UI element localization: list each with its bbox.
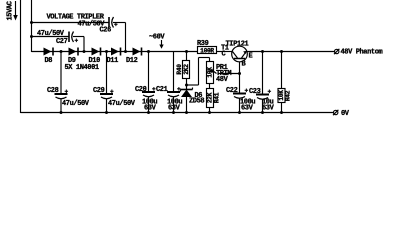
wire to C27 — [32, 36, 70, 38]
svg-text:C21: C21 — [156, 86, 168, 94]
diode D8 — [44, 48, 54, 56]
svg-text:63V: 63V — [262, 105, 275, 113]
capacitor C22 — [233, 74, 249, 114]
diode D12 — [133, 48, 142, 56]
wire emitter rail — [247, 51, 335, 53]
diode D10 — [92, 48, 101, 56]
svg-text:R42: R42 — [285, 90, 292, 101]
trimmer PR1 — [207, 62, 217, 89]
svg-text:~60V: ~60V — [149, 34, 165, 42]
resistor R42 — [278, 52, 285, 114]
svg-text:R39: R39 — [197, 40, 209, 48]
wire main rail — [32, 51, 198, 53]
svg-text:R40: R40 — [176, 64, 183, 75]
wire to C26 — [32, 22, 110, 24]
resistor R41 — [207, 89, 214, 114]
transistor T1 TIP121 — [232, 46, 248, 73]
svg-text:48V: 48V — [216, 76, 229, 84]
wire collector — [217, 51, 233, 53]
svg-text:TIP121: TIP121 — [226, 41, 249, 49]
svg-text:+: + — [114, 22, 118, 29]
capacitor C26 — [109, 17, 126, 52]
node junction C26 drop — [124, 50, 127, 53]
svg-text:100R: 100R — [200, 48, 214, 55]
svg-text:C29: C29 — [93, 87, 105, 95]
node junction base — [238, 72, 241, 75]
node ~60V label — [149, 34, 165, 49]
svg-text:D8: D8 — [45, 57, 53, 65]
svg-text:ZD58: ZD58 — [189, 98, 204, 106]
svg-text:48V Phantom: 48V Phantom — [341, 49, 383, 57]
node junction C27 tap — [30, 35, 33, 38]
svg-text:E: E — [249, 53, 253, 61]
svg-text:15VAC: 15VAC — [6, 1, 14, 20]
svg-text:5X 1N4001: 5X 1N4001 — [65, 64, 99, 72]
capacitor C27 — [69, 32, 84, 53]
capacitor C20 — [142, 52, 156, 114]
svg-text:2K2: 2K2 — [183, 64, 190, 75]
capacitor C29 — [100, 52, 114, 114]
svg-text:C: C — [222, 51, 226, 59]
svg-text:47u/50V: 47u/50V — [62, 100, 90, 108]
svg-text:+: + — [268, 89, 272, 96]
wire zener node to PR1 top — [187, 58, 210, 86]
terminal 0V — [333, 110, 338, 115]
resistor R39 — [198, 47, 217, 55]
node junction C27 drop — [83, 50, 86, 53]
capacitor C23 — [256, 52, 272, 114]
resistor R40 — [183, 52, 191, 86]
svg-text:C26: C26 — [100, 27, 112, 35]
node junction C23 tap — [261, 50, 264, 53]
node junction grounds — [60, 111, 63, 114]
svg-text:22K: 22K — [207, 92, 214, 103]
node junction R42 tap — [280, 50, 283, 53]
wire AC bus — [31, 0, 33, 52]
capacitor C28 — [55, 52, 69, 114]
svg-text:C20: C20 — [135, 86, 147, 94]
wire ground rail — [21, 112, 334, 114]
node junction C29 tap — [105, 50, 108, 53]
svg-text:C28: C28 — [47, 87, 59, 95]
wire base to PR1 wiper — [218, 73, 240, 75]
svg-text:+: + — [110, 89, 114, 96]
svg-text:D12: D12 — [126, 57, 138, 65]
svg-text:C27: C27 — [56, 38, 68, 46]
wire left rail — [20, 0, 22, 113]
svg-text:+: + — [65, 89, 69, 96]
svg-text:47u/50V: 47u/50V — [37, 30, 65, 38]
node junction R40 tap — [185, 50, 188, 53]
svg-text:+: + — [245, 88, 249, 95]
terminal +48V Phantom — [334, 49, 339, 54]
svg-text:C23: C23 — [249, 88, 261, 96]
svg-text:63V: 63V — [241, 105, 254, 113]
15VAC input arrow — [13, 1, 18, 21]
svg-text:C22: C22 — [226, 87, 238, 95]
node junction C28 tap — [60, 50, 63, 53]
diode D9 — [69, 48, 79, 56]
svg-text:0V: 0V — [341, 110, 350, 117]
svg-text:63V: 63V — [144, 105, 157, 113]
diode D11 — [111, 48, 121, 56]
svg-text:+: + — [75, 38, 79, 45]
svg-text:47u/50V: 47u/50V — [108, 100, 136, 108]
zener diode D6 — [181, 85, 193, 113]
capacitor C21 — [167, 52, 181, 114]
node junction C26 tap — [30, 21, 33, 24]
node junction zener top — [185, 84, 188, 87]
svg-text:D11: D11 — [107, 57, 119, 65]
node junction C20 tap — [147, 50, 150, 53]
svg-text:R41: R41 — [214, 92, 221, 103]
